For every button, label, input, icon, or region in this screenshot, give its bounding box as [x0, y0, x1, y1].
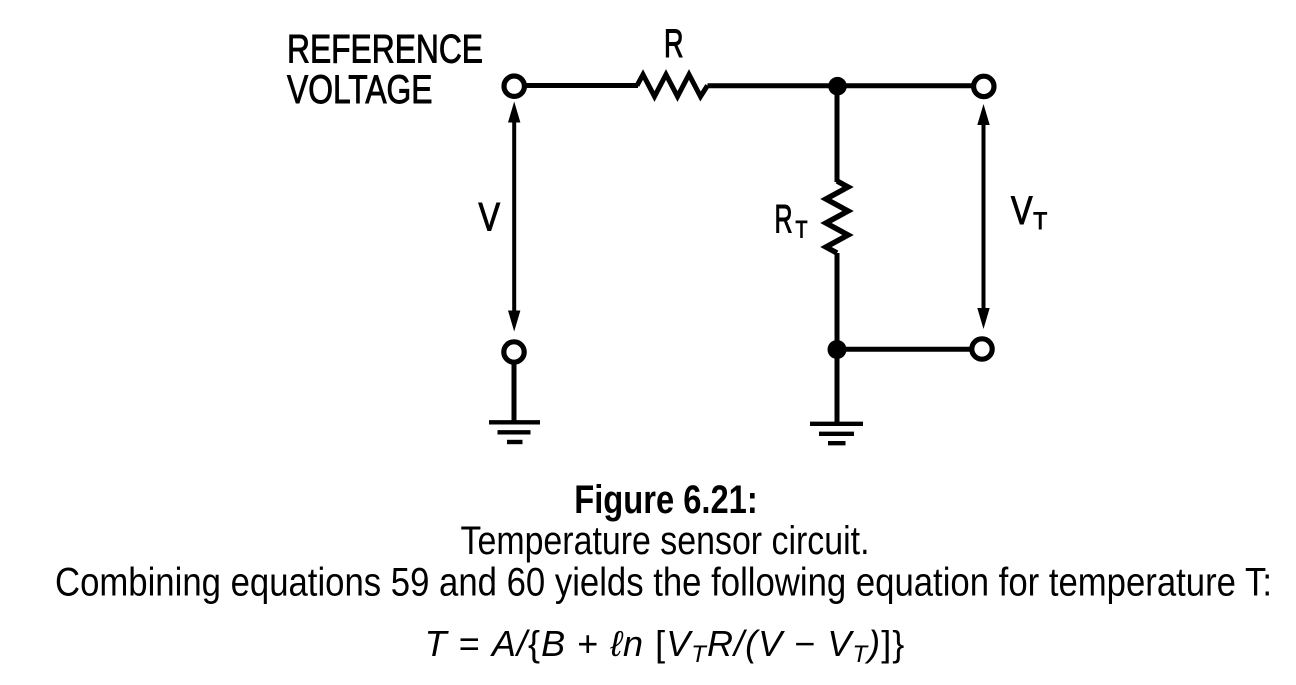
- voltage arrow VT (double-headed, T2 to T3): [977, 104, 989, 329]
- svg-text:Figure 6.21:: Figure 6.21:: [574, 478, 758, 522]
- svg-text:R: R: [664, 22, 684, 66]
- terminal T1 (reference voltage input, top left): [504, 76, 524, 96]
- label VT: [1011, 189, 1048, 235]
- wire: top junction down to RT: [835, 86, 840, 182]
- svg-text:T = A/{B + ℓn [VTR/(V − VT)]}: T = A/{B + ℓn [VTR/(V − VT)]}: [425, 623, 906, 668]
- svg-text:Combining equations 59 and 60: Combining equations 59 and 60 yields the…: [55, 561, 1272, 605]
- junction node top (R / RT): [828, 77, 847, 96]
- wire bottom: junction to terminal T3: [837, 347, 970, 352]
- svg-text:R: R: [775, 198, 793, 242]
- ground right: [810, 424, 863, 443]
- wire top-left: T1 to resistor R: [526, 83, 638, 88]
- svg-text:VOLTAGE: VOLTAGE: [287, 68, 433, 112]
- wire: RT down to bottom junction: [835, 253, 840, 350]
- terminal T2 (VT output, top right): [974, 76, 994, 96]
- svg-text:V: V: [1011, 189, 1033, 233]
- junction node bottom (RT / T3 / ground): [828, 340, 847, 359]
- ground left: [489, 422, 540, 442]
- node label REFERENCE VOLTAGE: [287, 27, 483, 112]
- voltage arrow V (double-headed, T1 to T4): [508, 102, 520, 332]
- terminal T3 (VT output, bottom right): [972, 339, 992, 359]
- svg-text:Temperature sensor circuit.: Temperature sensor circuit.: [461, 519, 870, 563]
- terminal T4 (reference ground, bottom left): [504, 342, 524, 362]
- wire top-right: resistor R to terminal T2: [708, 83, 973, 88]
- wire: bottom junction down to right ground: [835, 350, 840, 423]
- resistor RT (thermistor): [826, 181, 848, 253]
- svg-text:V: V: [479, 196, 501, 240]
- svg-text:T: T: [796, 216, 808, 243]
- svg-text:REFERENCE: REFERENCE: [287, 27, 483, 71]
- resistor RT value label: [775, 198, 808, 244]
- resistor R: [637, 75, 708, 97]
- svg-text:T: T: [1033, 208, 1047, 235]
- wire: T4 down to left ground: [512, 362, 517, 421]
